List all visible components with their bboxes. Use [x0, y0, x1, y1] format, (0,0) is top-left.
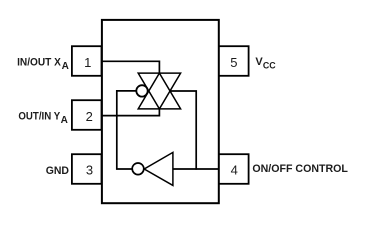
svg-text:5: 5 — [230, 55, 237, 70]
wire inverter input to pin 4 — [173, 168, 219, 170]
svg-text:CC: CC — [263, 60, 276, 71]
svg-text:A: A — [62, 61, 69, 72]
wire inverter output to switch bubble — [117, 91, 136, 169]
wire switch right side to control line — [170, 91, 196, 170]
svg-text:4: 4 — [231, 163, 238, 178]
package outline U1 — [102, 20, 219, 203]
inverter output bubble — [132, 163, 144, 175]
analog switch SW1 triangle down — [138, 73, 180, 109]
svg-text:IN/OUT X: IN/OUT X — [17, 57, 61, 69]
pin 5 box — [219, 46, 249, 76]
pin 4 box — [219, 154, 249, 184]
svg-text:3: 3 — [86, 163, 93, 178]
pin 3 box — [72, 154, 102, 184]
svg-text:ON/OFF CONTROL: ON/OFF CONTROL — [252, 163, 348, 175]
svg-text:A: A — [61, 115, 68, 126]
pin 1 box — [72, 46, 102, 76]
switch control bubble — [136, 85, 147, 96]
svg-text:2: 2 — [86, 109, 93, 124]
wire pin1 to switch top — [102, 61, 160, 73]
wire pin2 to switch bottom — [102, 109, 160, 116]
svg-text:OUT/IN Y: OUT/IN Y — [18, 111, 60, 123]
svg-text:1: 1 — [84, 55, 91, 70]
inverter U2 triangle — [144, 152, 173, 185]
svg-text:GND: GND — [46, 165, 69, 177]
analog switch SW1 triangle up — [138, 73, 180, 109]
pin 2 box — [72, 100, 102, 130]
